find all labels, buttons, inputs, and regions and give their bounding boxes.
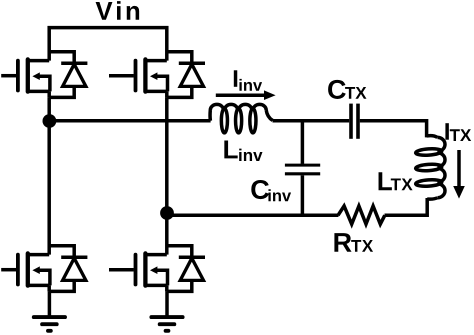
body diode of M2 [167, 52, 205, 98]
resistor RTX [338, 206, 385, 224]
wire node B to R_TX [167, 214, 339, 218]
wire C_TX to L_TX [360, 121, 427, 138]
capacitor CTX [351, 104, 358, 139]
wire L_inv to C_TX [273, 119, 350, 123]
wire node B down to M4 drain [165, 213, 169, 255]
ground 1 (left) [34, 291, 65, 330]
wire node A down to M3 drain [47, 121, 51, 255]
transistor M4 [109, 253, 168, 291]
wire M1 source to node A [47, 97, 51, 121]
wire node A to L_inv [49, 119, 210, 123]
current arrow Iinv [216, 90, 276, 100]
body diode of M3 [49, 246, 87, 292]
body diode of M4 [167, 246, 205, 292]
junction node B [160, 206, 174, 220]
wire M2 source down to node B [165, 97, 169, 213]
label LTX [379, 172, 413, 190]
current arrow ITX [453, 150, 465, 199]
junction node A [43, 114, 57, 128]
label Linv [224, 141, 262, 161]
transistor M2 [109, 59, 168, 97]
ground 2 (right) [151, 291, 182, 330]
label CTX [328, 80, 366, 99]
inductor Linv [210, 104, 273, 133]
transistor M3 [1, 253, 50, 291]
label ITX [445, 123, 471, 141]
label Vin [96, 1, 140, 20]
wire L_TX down to R_TX [385, 198, 428, 215]
label Iinv [234, 70, 262, 91]
wire Vin rail with drain drops [49, 28, 167, 61]
label RTX [334, 233, 373, 252]
label Cinv [251, 180, 291, 201]
body diode of M1 [49, 52, 87, 98]
capacitor Cinv [285, 121, 320, 216]
inductor LTX [415, 136, 445, 200]
transistor M1 [1, 59, 50, 97]
